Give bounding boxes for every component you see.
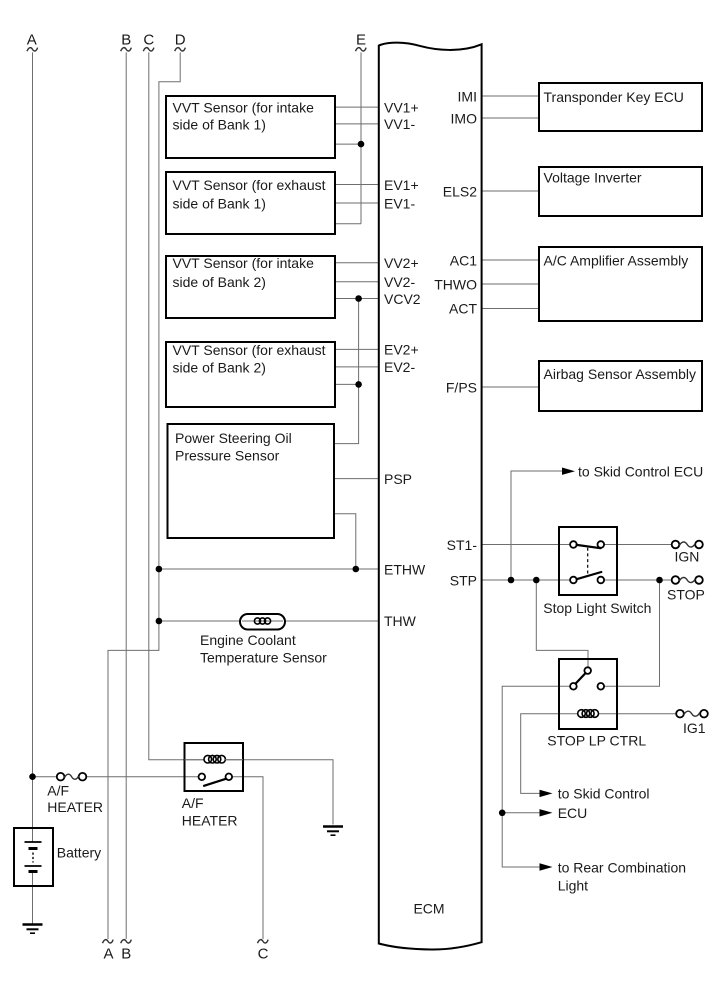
- svg-text:Power Steering Oil: Power Steering Oil: [175, 430, 292, 446]
- svg-text:Stop Light Switch: Stop Light Switch: [543, 600, 651, 616]
- svg-text:to Skid Control: to Skid Control: [558, 786, 650, 802]
- svg-text:A/F: A/F: [182, 795, 204, 811]
- svg-text:side of Bank 1): side of Bank 1): [173, 195, 266, 211]
- svg-text:ETHW: ETHW: [384, 561, 426, 577]
- svg-text:THWO: THWO: [434, 276, 477, 292]
- svg-text:A: A: [103, 946, 113, 963]
- svg-text:IMI: IMI: [458, 88, 477, 104]
- svg-text:side of Bank 1): side of Bank 1): [173, 116, 266, 132]
- svg-text:Transponder Key ECU: Transponder Key ECU: [544, 89, 684, 105]
- svg-text:ECU: ECU: [558, 805, 588, 821]
- svg-text:VVT Sensor (for intake: VVT Sensor (for intake: [173, 100, 315, 116]
- svg-text:IG1: IG1: [683, 720, 706, 736]
- svg-text:Battery: Battery: [57, 845, 101, 861]
- svg-text:Pressure Sensor: Pressure Sensor: [175, 447, 280, 463]
- svg-text:F/PS: F/PS: [446, 379, 477, 395]
- svg-text:VV1+: VV1+: [384, 99, 419, 115]
- svg-text:Voltage Inverter: Voltage Inverter: [544, 169, 642, 185]
- svg-text:to Skid Control ECU: to Skid Control ECU: [578, 463, 703, 479]
- svg-text:PSP: PSP: [384, 471, 412, 487]
- svg-text:B: B: [121, 32, 131, 49]
- svg-text:STOP LP CTRL: STOP LP CTRL: [547, 732, 646, 748]
- svg-text:HEATER: HEATER: [182, 812, 238, 828]
- svg-text:ECM: ECM: [413, 900, 444, 916]
- svg-text:Light: Light: [558, 877, 588, 893]
- svg-text:ELS2: ELS2: [443, 183, 477, 199]
- svg-text:STP: STP: [450, 572, 477, 588]
- svg-text:IGN: IGN: [675, 548, 700, 564]
- svg-text:VV1-: VV1-: [384, 116, 415, 132]
- svg-text:to Rear Combination: to Rear Combination: [558, 859, 686, 875]
- svg-text:B: B: [121, 946, 131, 963]
- svg-text:EV2+: EV2+: [384, 342, 419, 358]
- svg-text:VVT Sensor (for exhaust: VVT Sensor (for exhaust: [173, 342, 326, 358]
- svg-text:AC1: AC1: [450, 252, 477, 268]
- svg-text:THW: THW: [384, 613, 417, 629]
- svg-text:side of Bank 2): side of Bank 2): [173, 274, 266, 290]
- svg-text:EV1+: EV1+: [384, 177, 419, 193]
- svg-text:ST1-: ST1-: [447, 537, 478, 553]
- svg-text:EV1-: EV1-: [384, 195, 415, 211]
- svg-text:IMO: IMO: [451, 110, 478, 126]
- svg-text:VV2+: VV2+: [384, 255, 419, 271]
- svg-text:Engine Coolant: Engine Coolant: [200, 632, 296, 648]
- svg-text:VV2-: VV2-: [384, 274, 415, 290]
- svg-text:Airbag Sensor Assembly: Airbag Sensor Assembly: [544, 366, 697, 382]
- svg-text:STOP: STOP: [667, 587, 705, 603]
- svg-text:side of Bank 2): side of Bank 2): [173, 359, 266, 375]
- svg-text:VCV2: VCV2: [384, 291, 421, 307]
- svg-text:EV2-: EV2-: [384, 359, 415, 375]
- svg-text:A: A: [27, 32, 37, 49]
- svg-text:HEATER: HEATER: [47, 799, 103, 815]
- svg-text:VVT Sensor (for intake: VVT Sensor (for intake: [173, 255, 315, 271]
- svg-text:A/C Amplifier Assembly: A/C Amplifier Assembly: [544, 252, 689, 268]
- svg-text:E: E: [356, 32, 366, 49]
- svg-text:C: C: [143, 32, 154, 49]
- svg-text:A/F: A/F: [47, 782, 69, 798]
- svg-text:Temperature Sensor: Temperature Sensor: [200, 649, 327, 665]
- svg-text:ACT: ACT: [449, 301, 477, 317]
- svg-text:D: D: [175, 32, 186, 49]
- svg-text:VVT Sensor (for exhaust: VVT Sensor (for exhaust: [173, 177, 326, 193]
- svg-text:C: C: [258, 946, 269, 963]
